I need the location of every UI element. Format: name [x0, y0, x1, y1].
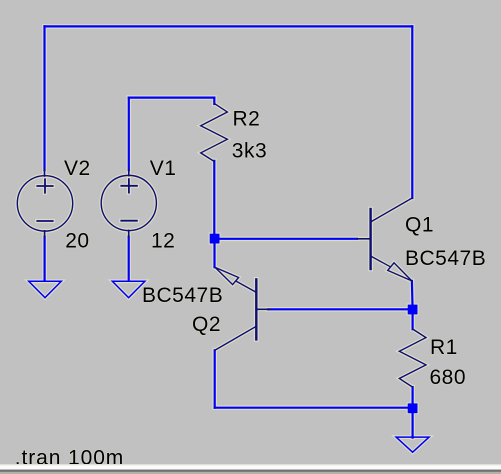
voltage source V2 circle [17, 176, 72, 231]
V2 minus sign [37, 220, 52, 222]
wire Q1 emitter to node B [411, 281, 414, 310]
ground below V2 [29, 281, 62, 297]
svg-text:BC547B: BC547B [405, 247, 486, 270]
wire top rail [45, 25, 413, 27]
wire node A to Q2 emitter [213, 239, 215, 268]
Q1 emitter arrow [388, 263, 412, 281]
resistor R2 body [201, 103, 228, 161]
wire Q1 collector rail [411, 26, 413, 198]
svg-text:20: 20 [65, 229, 89, 252]
voltage source V1 circle [101, 175, 156, 230]
wire R2 top stub [213, 98, 215, 104]
wire V2 top drop [43, 26, 45, 170]
Q1 base stub [357, 238, 371, 240]
V2 top pin stub [44, 170, 46, 176]
wire V1 to R2 [129, 96, 215, 98]
wire V1 top vertical [128, 98, 130, 171]
svg-text:3k3: 3k3 [232, 139, 267, 162]
V1 minus sign [121, 220, 137, 222]
node A junction [210, 234, 220, 244]
bottom window border dark line [0, 470, 501, 472]
svg-text:680: 680 [430, 366, 467, 389]
resistor R1 body [399, 329, 426, 387]
V1 plus sign [121, 179, 137, 192]
svg-text:R1: R1 [430, 336, 458, 359]
V1 bottom pin stub [128, 230, 130, 237]
Q1 emitter stroke [371, 256, 390, 267]
Q2 emitter arrow [215, 267, 239, 284]
wire R1 bottom to node C [412, 387, 414, 408]
svg-text:V2: V2 [64, 157, 91, 180]
svg-text:12: 12 [151, 230, 175, 253]
transistor Q2 bar [255, 279, 257, 339]
wire Q2 base to node B [268, 308, 413, 310]
wire node C to ground [412, 408, 414, 437]
svg-text:Q2: Q2 [192, 313, 221, 336]
node B junction [408, 305, 418, 315]
wire R2 bottom to node A [213, 161, 215, 239]
svg-text:R2: R2 [233, 108, 261, 131]
wire node B to R1 [412, 310, 414, 330]
wire bottom rail [215, 407, 413, 409]
halo underlay for wires and symbols [17, 26, 429, 452]
Q2 base stub [256, 308, 270, 310]
V2 plus sign [37, 179, 52, 192]
wire V1 bottom [128, 237, 130, 281]
wire Q2 collector down [214, 350, 216, 407]
wire node A to Q1 base [215, 238, 357, 240]
V1 top pin stub [128, 170, 130, 176]
svg-text:BC547B: BC547B [142, 284, 223, 307]
bottom window border lower gray [0, 472, 501, 474]
Q2 emitter stroke [236, 281, 256, 292]
V2 bottom pin stub [44, 231, 46, 237]
ground below R1 [396, 437, 429, 452]
svg-text:V1: V1 [150, 157, 177, 180]
transistor Q1 bar [369, 209, 371, 269]
svg-text:Q1: Q1 [405, 214, 434, 237]
bottom window border highlight [0, 464, 501, 470]
Q1 collector stroke [371, 198, 413, 222]
node C junction [408, 403, 418, 413]
wire V2 bottom [43, 237, 45, 281]
Q2 collector stroke [215, 326, 256, 350]
ground below V1 [112, 281, 145, 297]
